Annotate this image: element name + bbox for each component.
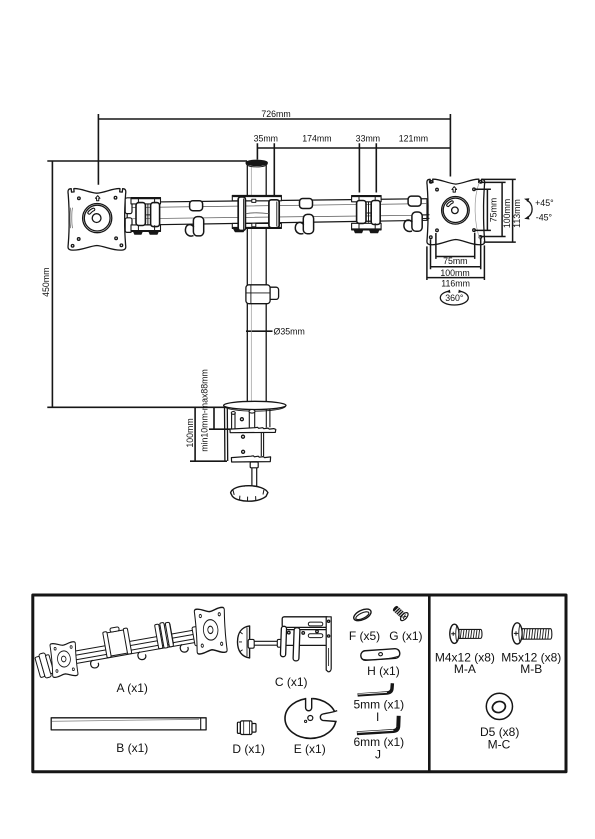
desk clamp top disc	[224, 401, 286, 411]
dim line 100mm horizontal below plate	[431, 239, 481, 269]
part I allen key 5mm	[358, 683, 393, 695]
clamp middle shelf	[230, 427, 276, 432]
svg-text:174mm: 174mm	[302, 133, 331, 143]
part E grommet plate	[285, 697, 339, 739]
part C bracket lower plate	[282, 630, 328, 646]
leader line diameter 35mm	[246, 330, 273, 332]
svg-text:-45°: -45°	[536, 212, 552, 222]
svg-text:Ø35mm: Ø35mm	[274, 327, 305, 337]
svg-text:D (x1): D (x1)	[232, 742, 265, 756]
dim line min10mm-max88mm	[209, 407, 232, 429]
part C rod	[254, 641, 277, 645]
part A clips	[90, 643, 189, 668]
center joint	[232, 195, 281, 231]
part C hub	[248, 639, 254, 648]
svg-text:116mm: 116mm	[441, 279, 470, 289]
clamp knob	[231, 486, 268, 502]
svg-text:100mm: 100mm	[502, 199, 512, 228]
part D spacer	[237, 721, 256, 735]
clamp A	[131, 198, 161, 235]
svg-text:+45°: +45°	[535, 198, 553, 208]
svg-text:F (x5): F (x5)	[349, 629, 380, 643]
right plate slot	[447, 201, 454, 207]
part A left side bracket	[34, 652, 54, 680]
part A tube	[75, 630, 198, 664]
svg-text:121mm: 121mm	[399, 133, 428, 143]
clamp stud 2	[249, 410, 255, 431]
left plate slot	[88, 208, 95, 214]
svg-text:450mm: 450mm	[41, 268, 51, 297]
cable clip 2	[295, 199, 313, 234]
right plate fold arc	[475, 182, 481, 242]
arm tube inner lines	[127, 204, 427, 219]
clamp right wall upper	[266, 409, 270, 427]
part F ring	[352, 607, 373, 623]
dim line 113mm vertical right	[482, 179, 516, 242]
dim line 75mm vertical right	[474, 189, 491, 230]
svg-text:J: J	[375, 747, 381, 761]
cable clip 3	[404, 196, 422, 231]
part C back plate	[326, 617, 331, 672]
rotation 360 ellipse	[440, 290, 468, 305]
clamp screw rod	[250, 462, 258, 486]
svg-text:35mm: 35mm	[254, 133, 278, 143]
part C jaw plates	[280, 626, 286, 657]
tilt arc +45/-45	[524, 198, 532, 219]
left plate edge lines	[70, 208, 72, 229]
part C knob	[238, 626, 250, 658]
left plate big circle	[83, 204, 112, 233]
part A left VESA plate	[50, 642, 78, 678]
svg-text:A (x1): A (x1)	[117, 681, 148, 695]
svg-text:C (x1): C (x1)	[275, 675, 308, 689]
svg-text:min10mm-max88mm: min10mm-max88mm	[200, 369, 210, 452]
part A right VESA plate	[194, 607, 227, 654]
right VESA plate	[427, 179, 485, 245]
left plate up-arrow	[95, 196, 100, 201]
svg-text:G (x1): G (x1)	[389, 629, 422, 643]
left plate center hole	[92, 214, 101, 223]
left knuckle tabs	[125, 198, 132, 233]
svg-text:H (x1): H (x1)	[367, 664, 400, 678]
dim line 100mm vertical right	[480, 182, 505, 236]
right plate big circle	[442, 197, 470, 225]
right arm end lower tube lines	[421, 215, 430, 219]
parts box outer frame	[33, 595, 566, 772]
part C collar	[277, 639, 281, 647]
clamp holes	[240, 418, 243, 421]
dim line 726mm	[98, 114, 450, 185]
part H strap plate	[361, 648, 401, 660]
dim line 450mm vertical	[47, 161, 247, 407]
svg-text:E (x1): E (x1)	[294, 742, 326, 756]
pole upper segment	[247, 165, 266, 403]
right plate screw holes 75mm	[436, 188, 439, 191]
svg-text:75mm: 75mm	[488, 198, 498, 222]
right plate screw holes 100mm	[430, 181, 433, 184]
svg-text:75mm: 75mm	[443, 256, 467, 266]
pole highlight	[250, 166, 252, 402]
dim line 35/174/33/121	[257, 143, 450, 197]
part C bracket top plate	[282, 617, 328, 628]
cable clip 1	[185, 201, 203, 236]
part A right bracket	[192, 624, 205, 647]
svg-text:360°: 360°	[445, 293, 463, 303]
part G screw	[391, 604, 410, 622]
pole top cap	[246, 160, 267, 165]
washer D5	[486, 693, 512, 719]
svg-text:M-B: M-B	[520, 662, 542, 676]
right plate center hole	[452, 207, 459, 214]
clamp stud 1	[231, 412, 235, 431]
part A center joint	[102, 625, 132, 658]
pole collar	[246, 285, 279, 304]
part J allen key 6mm	[357, 716, 399, 734]
part B pole tube	[51, 718, 206, 730]
dim line 100mm clamp	[190, 407, 227, 461]
svg-text:100mm: 100mm	[185, 418, 195, 447]
clamp right wall lower	[261, 433, 263, 456]
parts box divider	[428, 595, 431, 772]
dim line 116mm horizontal below plate	[427, 245, 485, 280]
svg-text:B (x1): B (x1)	[116, 741, 148, 755]
left VESA plate	[68, 189, 126, 251]
svg-text:100mm: 100mm	[440, 268, 469, 278]
part C holes	[288, 631, 291, 634]
part A assembly	[31, 604, 232, 685]
clamp left wall	[225, 407, 228, 461]
clamp B	[352, 196, 382, 233]
clamp lower shelf	[231, 456, 270, 462]
part A clamp	[154, 621, 173, 649]
screw M5x12	[512, 623, 552, 644]
dim line 75mm horizontal below plate	[436, 233, 475, 259]
arm tube	[127, 199, 427, 226]
svg-text:113mm: 113mm	[512, 199, 522, 228]
svg-text:33mm: 33mm	[356, 133, 380, 143]
svg-text:M-C: M-C	[488, 737, 511, 751]
svg-text:726mm: 726mm	[261, 109, 290, 119]
left plate screw holes	[78, 197, 81, 200]
right plate up-arrow	[452, 187, 457, 193]
screw M4x12	[450, 624, 482, 643]
svg-text:M-A: M-A	[454, 662, 476, 676]
svg-text:I: I	[376, 710, 379, 724]
part C desk clamp	[238, 617, 332, 672]
